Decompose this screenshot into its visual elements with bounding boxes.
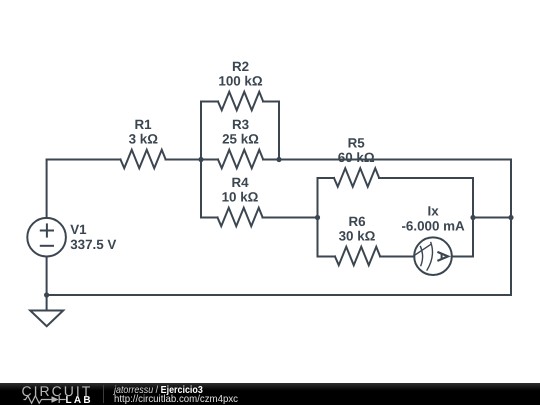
- svg-text:R6: R6: [348, 214, 365, 229]
- svg-text:R1: R1: [134, 117, 152, 132]
- svg-text:R5: R5: [348, 136, 366, 151]
- svg-text:3 kΩ: 3 kΩ: [129, 131, 159, 146]
- svg-text:R2: R2: [232, 59, 249, 74]
- svg-text:60 kΩ: 60 kΩ: [338, 150, 375, 165]
- svg-text:30 kΩ: 30 kΩ: [339, 228, 376, 243]
- svg-text:Ix: Ix: [428, 204, 440, 219]
- svg-text:R4: R4: [231, 175, 249, 190]
- svg-text:337.5 V: 337.5 V: [70, 237, 116, 252]
- svg-text:R3: R3: [232, 117, 249, 132]
- svg-text:V1: V1: [70, 222, 87, 237]
- svg-text:LAB: LAB: [66, 395, 93, 405]
- svg-text:100 kΩ: 100 kΩ: [218, 73, 263, 88]
- svg-text:10 kΩ: 10 kΩ: [222, 189, 259, 204]
- svg-text:25 kΩ: 25 kΩ: [222, 131, 259, 146]
- svg-text:-6.000 mA: -6.000 mA: [401, 219, 465, 234]
